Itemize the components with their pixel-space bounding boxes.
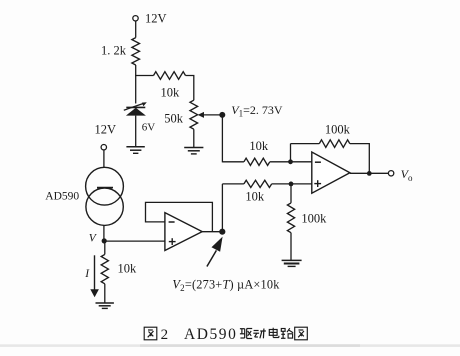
annotation arrow to node V2: [207, 237, 223, 267]
svg-text:2: 2: [161, 327, 169, 343]
caption glyph 图 (first): [144, 327, 157, 340]
node V2 junction: [219, 229, 225, 235]
AD590 current source (two circles): [86, 167, 124, 225]
wire U1 output to node V2: [202, 231, 222, 233]
wire node V to buffer + input: [104, 240, 165, 242]
node U2 minus junction: [288, 159, 293, 164]
wire 10k to ground (V branch): [104, 284, 106, 303]
faint scan band at bottom (decorative): [0, 344, 460, 347]
power terminal 12V (AD590 branch): [101, 145, 106, 150]
wire zener to ground: [135, 116, 137, 147]
power terminal 12V (top): [133, 16, 138, 21]
zener diode 6V: [124, 102, 147, 115]
svg-text:10k: 10k: [161, 86, 181, 100]
resistor 10k (V to ground): [101, 254, 108, 283]
wire node V down to 10k: [104, 241, 106, 255]
wire feedback row left: [291, 143, 320, 145]
op-amp U2: [312, 152, 350, 193]
resistor 100k (to ground): [287, 203, 294, 233]
wire 100k to ground: [290, 233, 292, 261]
output terminal Vo: [388, 171, 393, 176]
wire feedback row right: [350, 144, 370, 174]
feedback wire U1 (output to - input): [146, 202, 213, 231]
node output junction: [367, 171, 372, 176]
op-amp U1 (buffer): [165, 213, 202, 251]
resistor 10k (V1 to U2 minus): [244, 158, 270, 165]
ground (zener branch): [126, 147, 144, 154]
current arrow I: [90, 255, 99, 297]
wire node A to zener: [135, 76, 137, 104]
resistor 100k (feedback): [319, 140, 350, 148]
wire terminal to AD590: [103, 150, 105, 168]
wire node A row (to pot branch): [135, 75, 153, 77]
wire U2 plus down to 100k: [290, 184, 292, 203]
wire AD590 to node V: [103, 225, 105, 241]
svg-text:V: V: [89, 232, 98, 244]
svg-text:V1=2. 73V: V1=2. 73V: [231, 103, 283, 119]
ground (100k branch): [282, 260, 302, 266]
svg-text:50k: 50k: [164, 112, 184, 126]
svg-text:10k: 10k: [249, 139, 269, 153]
resistor 10k (V2 to U2 plus): [244, 180, 272, 187]
wire V1 row to 10k: [222, 161, 244, 163]
wire R 1.2k to node A: [135, 65, 137, 76]
caption glyph 动: [253, 329, 266, 339]
wire 10k to pot top corner: [186, 76, 194, 101]
node V junction: [102, 238, 107, 243]
ground (V branch): [96, 303, 114, 308]
node U2 plus junction: [289, 182, 294, 187]
svg-text:I: I: [84, 268, 90, 280]
caption glyph 电: [269, 328, 279, 338]
svg-text:12V: 12V: [145, 12, 167, 26]
wire node V2 up to 10k row: [221, 184, 223, 232]
svg-text:6V: 6V: [142, 121, 156, 133]
resistor 10k (horizontal, top): [154, 72, 186, 80]
svg-text:AD590: AD590: [184, 326, 237, 343]
wire U2 output to terminal: [350, 172, 389, 174]
svg-text:AD590: AD590: [45, 190, 79, 202]
wire V2 row to 10k: [222, 183, 244, 185]
feedback wire up from U2 minus: [290, 144, 292, 162]
svg-text:1. 2k: 1. 2k: [101, 44, 127, 58]
caption glyph 驱: [240, 329, 252, 339]
caption glyph 图: [295, 327, 308, 340]
potentiometer 50k: [190, 100, 204, 129]
svg-text:100k: 100k: [301, 212, 327, 226]
svg-text:100k: 100k: [325, 123, 351, 137]
svg-text:V2=(273+T) µA×10k: V2=(273+T) µA×10k: [172, 277, 280, 293]
wire terminal to R 1.2k: [135, 21, 137, 38]
ground (pot branch): [184, 148, 203, 154]
svg-text:10k: 10k: [118, 262, 138, 276]
svg-text:Vo: Vo: [401, 167, 413, 183]
resistor 1.2k: [132, 38, 140, 65]
wire node V1 down to 10k row: [221, 115, 223, 162]
wire 10k to U2 plus input: [272, 183, 312, 185]
svg-text:12V: 12V: [95, 123, 117, 137]
wire 10k to U2 minus input: [270, 161, 312, 163]
wire wiper to node V1: [203, 114, 223, 116]
node V1 junction: [219, 112, 225, 118]
svg-text:10k: 10k: [245, 190, 265, 204]
wire pot bottom to ground: [193, 129, 195, 147]
caption glyph 路: [281, 328, 293, 338]
